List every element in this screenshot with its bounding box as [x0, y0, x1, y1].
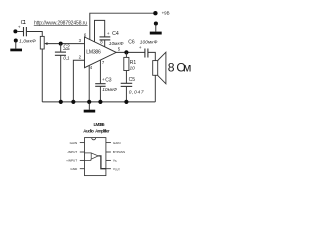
svg-text:+9В: +9В [162, 11, 170, 16]
svg-text:Audio: Audio [83, 128, 94, 133]
internal wire -input [85, 152, 92, 154]
capacitor C3 [95, 84, 105, 102]
wire pin 2 to ground rail [73, 60, 84, 102]
svg-text:-INPUT: -INPUT [67, 150, 77, 154]
pin 4 stub (GND) [80, 168, 85, 170]
svg-text:LM386: LM386 [86, 50, 101, 56]
ground (rail) [84, 102, 96, 113]
pin 7 stub (BYPASS) [106, 151, 111, 153]
wire output pin 5 to C6 [116, 51, 145, 53]
ground rail wire [42, 101, 155, 103]
svg-text:+: + [107, 32, 110, 37]
svg-text:8: 8 [168, 61, 175, 75]
pin 3 stub (+INPUT) [80, 159, 85, 161]
junction node (pin2/rail) [71, 100, 75, 104]
potentiometer R (volume) [40, 36, 47, 49]
internal wire +input [85, 159, 91, 160]
svg-text:+INPUT: +INPUT [66, 159, 77, 163]
svg-text:GAIN: GAIN [113, 141, 121, 145]
speaker LS (8 Ом) [153, 52, 166, 84]
wire input to C1 [17, 31, 23, 33]
svg-text:C4: C4 [112, 31, 119, 37]
capacitor C6 [145, 49, 148, 58]
svg-text:+: + [139, 46, 142, 51]
svg-text:C3: C3 [105, 77, 112, 83]
wire pin 4 to ground rail [88, 65, 90, 102]
svg-text:BYPASS: BYPASS [113, 150, 125, 154]
wire C1 to potentiometer top [26, 32, 42, 37]
junction node (C5/rail) [124, 100, 128, 104]
pin 1 stub (GAIN) [80, 142, 85, 144]
svg-text:Amplifier: Amplifier [95, 128, 110, 133]
pin 5 stub (Vout) [106, 168, 111, 170]
wire pin 7 to C3 [99, 60, 101, 84]
svg-text:GAIN: GAIN [70, 141, 78, 145]
capacitor C4 [100, 37, 111, 47]
ground (input jack) [10, 41, 22, 52]
junction node (C3/rail) [98, 100, 102, 104]
svg-text:+: + [18, 26, 21, 31]
internal wire output to pin 5 [98, 156, 106, 169]
svg-text:Ом: Ом [176, 61, 191, 75]
svg-text:10мкФ: 10мкФ [102, 87, 117, 93]
gain loop wire pin 8 to C4 (pins 8-1) [95, 20, 105, 42]
svg-text:R1: R1 [130, 60, 137, 66]
junction node (output) [124, 50, 128, 54]
wire C2 to ground rail [60, 55, 62, 102]
IC package body [85, 138, 106, 176]
svg-text:LM386: LM386 [94, 122, 105, 127]
capacitor C2 [55, 44, 66, 56]
ground (power) [150, 24, 162, 35]
junction node (C2/rail) [59, 100, 63, 104]
internal op-amp triangle [91, 153, 98, 159]
svg-text:10мкФ: 10мкФ [109, 41, 124, 47]
svg-text:1,0мкФ: 1,0мкФ [19, 39, 36, 45]
wire wiper to pin 3 [46, 43, 85, 45]
svg-text:C5: C5 [129, 77, 136, 83]
svg-text:http://www.298792458.ru: http://www.298792458.ru [34, 20, 87, 26]
wire pot bottom to ground rail [41, 49, 43, 102]
0V battery terminal [154, 21, 158, 25]
wire speaker to ground rail [154, 75, 156, 102]
wire C6 to speaker [148, 52, 155, 60]
C2 designator label [63, 44, 70, 50]
url watermark text [34, 20, 88, 26]
svg-text:0,1: 0,1 [63, 55, 70, 61]
input signal terminal [13, 29, 17, 33]
resistor R1 [124, 52, 129, 83]
input ground terminal [14, 39, 18, 43]
svg-text:GND: GND [70, 167, 78, 171]
IC notch [92, 138, 96, 140]
pin 8 stub (GAIN) [106, 142, 111, 144]
junction node (C2 tap) [59, 42, 63, 46]
capacitor C1 [24, 27, 27, 36]
svg-text:100мкФ: 100мкФ [140, 40, 158, 46]
junction node (pin4/rail) [87, 100, 91, 104]
svg-text:10: 10 [130, 66, 136, 72]
op-amp U1 LM386 [85, 37, 117, 68]
wire pin 6 to +9V [90, 13, 156, 39]
capacitor C5 [121, 83, 133, 102]
+9V terminal [153, 11, 169, 16]
pin 6 stub (Vs) [106, 159, 111, 161]
svg-text:С6: С6 [128, 40, 135, 46]
pin 2 stub (-INPUT) [80, 151, 85, 153]
svg-text:C1: C1 [21, 20, 27, 26]
svg-text:0,047: 0,047 [129, 89, 144, 95]
